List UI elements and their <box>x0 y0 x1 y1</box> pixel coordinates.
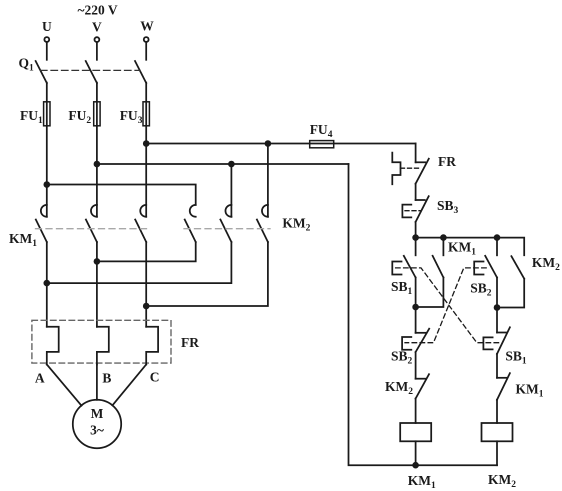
wire coil KM2 to bottom <box>496 441 498 465</box>
wire U tap to contact4 <box>47 185 196 205</box>
wire V phase <box>96 83 98 217</box>
wire KM2 NC to coil KM1 <box>415 399 417 423</box>
wire node rail <box>416 238 525 256</box>
contact KM2 aux NO <box>497 256 524 307</box>
junction SB2 branch bottom <box>494 304 501 311</box>
wire FR to SB3 <box>415 184 417 200</box>
mechanical link SB1 to SB1' dashed <box>396 268 500 343</box>
wire contact3 lower <box>145 242 147 327</box>
contactor KM2 main contact 3 <box>257 205 268 242</box>
svg-text:B: B <box>102 370 111 385</box>
FR heater element 1 <box>47 327 59 365</box>
wire U phase <box>46 83 48 217</box>
svg-text:C: C <box>150 370 160 385</box>
junction SB1 branch bottom <box>412 304 419 311</box>
wire contact1 lower <box>46 242 48 327</box>
svg-text:M: M <box>91 406 104 421</box>
svg-text:3~: 3~ <box>90 423 104 438</box>
FR heater element 3 <box>146 327 158 365</box>
wire KM1 NC to coil KM2 <box>496 400 498 423</box>
wire A to motor <box>47 365 82 406</box>
junction coil KM1 bottom <box>412 462 419 469</box>
wire contact5 lower crossover <box>47 242 232 283</box>
thermal relay FR NC contact <box>392 153 429 185</box>
wire right branch to SB1' <box>496 308 498 333</box>
node U terminal <box>42 19 52 60</box>
coil KM1 <box>400 423 431 441</box>
wire coil KM1 to bottom <box>415 441 417 465</box>
wire contact2 lower <box>96 242 98 327</box>
wire feed contact6 <box>267 144 269 217</box>
junction U tap <box>44 181 51 188</box>
fuse FU4 <box>310 122 334 148</box>
fuse FU3 <box>120 102 150 126</box>
contactor KM1 main contact 3 <box>135 205 146 242</box>
junction contact6 to W <box>143 303 150 310</box>
junction feed contact5 <box>228 161 235 168</box>
pushbutton SB2' NC <box>402 329 429 352</box>
pushbutton SB3 stop NC <box>402 196 428 222</box>
wire B to motor <box>96 365 98 400</box>
wire feed contact5 <box>230 164 232 217</box>
junction node SB1 <box>412 234 419 241</box>
contact KM2 interlock NC <box>416 374 429 398</box>
wire SB3 to node <box>415 222 417 238</box>
contact KM1 interlock NC <box>497 373 510 400</box>
contact KM1 aux NO <box>416 238 444 307</box>
contactor KM2 main contact 2 <box>220 205 231 242</box>
wire control hot drop <box>415 144 417 163</box>
fuse FU1 <box>20 102 50 126</box>
switch Q1 <box>19 56 147 84</box>
junction W hot rail <box>143 140 150 147</box>
wire contact4 lower crossover <box>97 242 196 261</box>
contactor KM1 main contact 1 <box>36 205 47 242</box>
mechanical link SB2 to SB2' dashed <box>405 268 486 343</box>
wire contact6 lower crossover <box>146 242 268 306</box>
junction node SB2 <box>494 234 501 241</box>
node V terminal <box>92 20 102 60</box>
svg-text:~220 V: ~220 V <box>78 3 118 18</box>
wire SB1' to KM1 NC <box>496 354 498 378</box>
svg-text:V: V <box>92 20 102 35</box>
wire SB2' to KM2 NC <box>415 352 417 379</box>
thermal overload FR box <box>32 320 171 363</box>
svg-text:FR: FR <box>438 154 456 169</box>
node W terminal <box>140 19 154 60</box>
coil KM2 <box>482 423 513 441</box>
wire rail2 to control return <box>97 163 349 165</box>
FR heater element 2 <box>97 327 109 365</box>
junction node KM1aux <box>440 234 447 241</box>
contactor KM2 main contact 1 <box>185 205 196 242</box>
pushbutton SB1 start NO <box>392 238 415 307</box>
wire control return <box>349 164 498 465</box>
pushbutton SB2 start NO <box>474 238 497 308</box>
junction V rail2 <box>94 161 101 168</box>
junction feed contact6 <box>265 140 272 147</box>
junction contact4 to V <box>94 258 101 265</box>
wire hot rail to control <box>146 143 415 145</box>
svg-text:A: A <box>35 370 45 385</box>
wire left branch to SB2' <box>415 307 417 333</box>
svg-text:W: W <box>140 19 154 34</box>
contactor KM1 main contact 2 <box>86 205 97 242</box>
junction contact5 to U <box>44 280 51 287</box>
wire C to motor <box>112 365 146 406</box>
pushbutton SB1' NC <box>483 327 510 354</box>
svg-text:U: U <box>42 19 52 34</box>
mechanical link dashed KM row <box>36 228 149 230</box>
motor M 3~ <box>73 400 121 448</box>
fuse FU2 <box>68 102 100 126</box>
wire W phase <box>145 83 147 217</box>
svg-text:FR: FR <box>181 335 199 350</box>
